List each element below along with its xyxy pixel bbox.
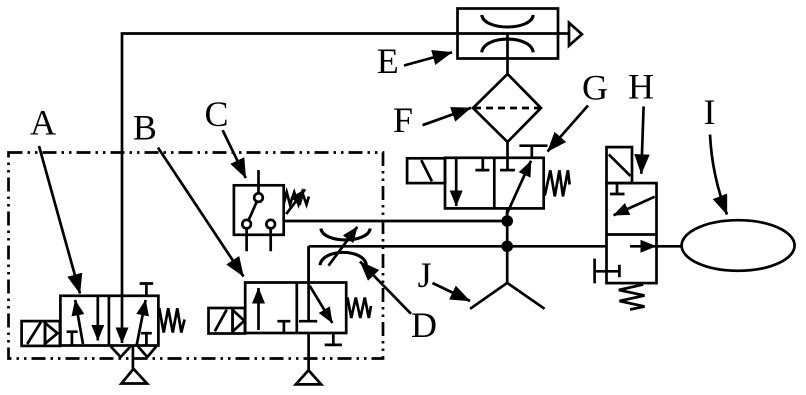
valve G left blocked port T xyxy=(475,158,489,170)
valve B right diagonal arrow xyxy=(310,286,333,323)
svg-text:H: H xyxy=(628,67,654,107)
switch C top pin xyxy=(257,170,260,193)
svg-text:C: C xyxy=(205,94,229,134)
valve H pilot port T xyxy=(595,259,620,284)
valve G pilot box xyxy=(407,158,445,183)
svg-text:A: A xyxy=(30,103,56,143)
valve B pilot solenoid box xyxy=(209,308,245,334)
valve H diagonal arrow xyxy=(614,197,655,216)
valve B return spring xyxy=(348,298,372,319)
valve A bottom-right blocked port T xyxy=(141,333,152,345)
valve H top blocked port T xyxy=(610,183,625,194)
valve H body xyxy=(607,183,657,283)
nozzle J branch xyxy=(470,246,544,308)
svg-text:B: B xyxy=(133,108,157,148)
air bladder I ellipse xyxy=(682,220,795,271)
filter F diamond xyxy=(473,74,541,142)
wire: filter F to valve G xyxy=(506,142,509,170)
label C arrow xyxy=(223,130,246,178)
wire 1: switch C to junction xyxy=(284,220,508,223)
valve B bottom-right blocked port T xyxy=(325,333,342,345)
throttle D upper arc xyxy=(321,229,370,240)
flow control E lower arc xyxy=(482,39,534,52)
svg-text:F: F xyxy=(393,100,413,140)
throttle D adjust arrow xyxy=(329,227,358,266)
valve A pilot solenoid box xyxy=(22,321,60,346)
valve B exhaust line and silencer triangle xyxy=(296,333,321,384)
valve A body xyxy=(60,296,158,346)
pressure switch C box xyxy=(234,185,284,235)
label B arrow xyxy=(158,148,244,277)
throttle D lower arc xyxy=(320,252,366,265)
valve B body xyxy=(245,283,346,334)
label D arrow xyxy=(360,262,411,314)
valve A exhaust line and silencer triangle xyxy=(121,346,147,384)
valve B right top port with T xyxy=(299,246,317,321)
label D xyxy=(411,305,437,345)
switch C top contact circle xyxy=(254,193,263,202)
wire 2: corner to valve B top port and to valve H xyxy=(309,246,607,282)
svg-text:G: G xyxy=(582,68,608,108)
valve A return spring xyxy=(159,308,184,332)
label F arrow xyxy=(423,108,472,125)
valve G inlet blocked T xyxy=(500,169,515,172)
junction vertical link xyxy=(506,221,509,246)
valve A right up arrow xyxy=(137,300,146,346)
flow control E stem xyxy=(506,34,509,75)
wire: valve H to bladder I xyxy=(657,245,682,248)
valve A top-right blocked port T xyxy=(140,284,154,296)
label A arrow xyxy=(39,146,80,294)
switch C bottom pins xyxy=(247,228,271,251)
valve G push button xyxy=(519,146,547,158)
valve A exhaust V ports xyxy=(111,346,157,357)
label G xyxy=(582,68,608,108)
valve B left up arrow xyxy=(257,288,260,330)
svg-text:J: J xyxy=(418,255,432,295)
valve A left up arrow xyxy=(75,300,83,344)
flow control E body xyxy=(458,9,559,59)
label C xyxy=(205,94,229,134)
valve G body xyxy=(445,158,544,209)
label G arrow xyxy=(548,106,589,152)
label I xyxy=(704,92,716,132)
label E arrow xyxy=(404,52,452,65)
label J arrow xyxy=(433,283,471,301)
valve G left down arrow xyxy=(455,158,458,206)
flow control E exhaust triangle xyxy=(558,23,582,46)
valve H return spring xyxy=(619,285,645,310)
flow control E upper arc xyxy=(482,15,534,27)
label H arrow xyxy=(641,106,643,173)
valve H pilot box xyxy=(607,147,633,183)
label I arrow xyxy=(710,135,727,215)
label B xyxy=(133,108,157,148)
svg-text:I: I xyxy=(704,92,716,132)
switch C bottom-left contact circle xyxy=(242,220,251,229)
valve G return spring xyxy=(545,170,570,196)
valve G right diagonal arrow xyxy=(507,161,531,214)
svg-text:D: D xyxy=(411,305,437,345)
enclosure dash-dot box xyxy=(9,153,384,359)
switch C adjustable spring xyxy=(284,189,309,214)
label H xyxy=(628,67,654,107)
switch C bottom-right contact circle xyxy=(266,220,275,229)
valve H flow arrow xyxy=(630,245,656,248)
label A xyxy=(30,103,56,143)
valve A left down arrow xyxy=(96,296,99,340)
junction dot 2 xyxy=(501,241,513,253)
label E xyxy=(377,41,399,81)
label F xyxy=(393,100,413,140)
wire top rail into valve A xyxy=(122,34,458,344)
valve A left blocked port T xyxy=(67,332,78,346)
valve B left blocked port T xyxy=(277,321,290,333)
svg-text:E: E xyxy=(377,41,399,81)
junction dot 1 xyxy=(501,215,513,227)
label J xyxy=(418,255,432,295)
valve G bottom port xyxy=(506,208,509,222)
switch C lever xyxy=(249,202,257,220)
